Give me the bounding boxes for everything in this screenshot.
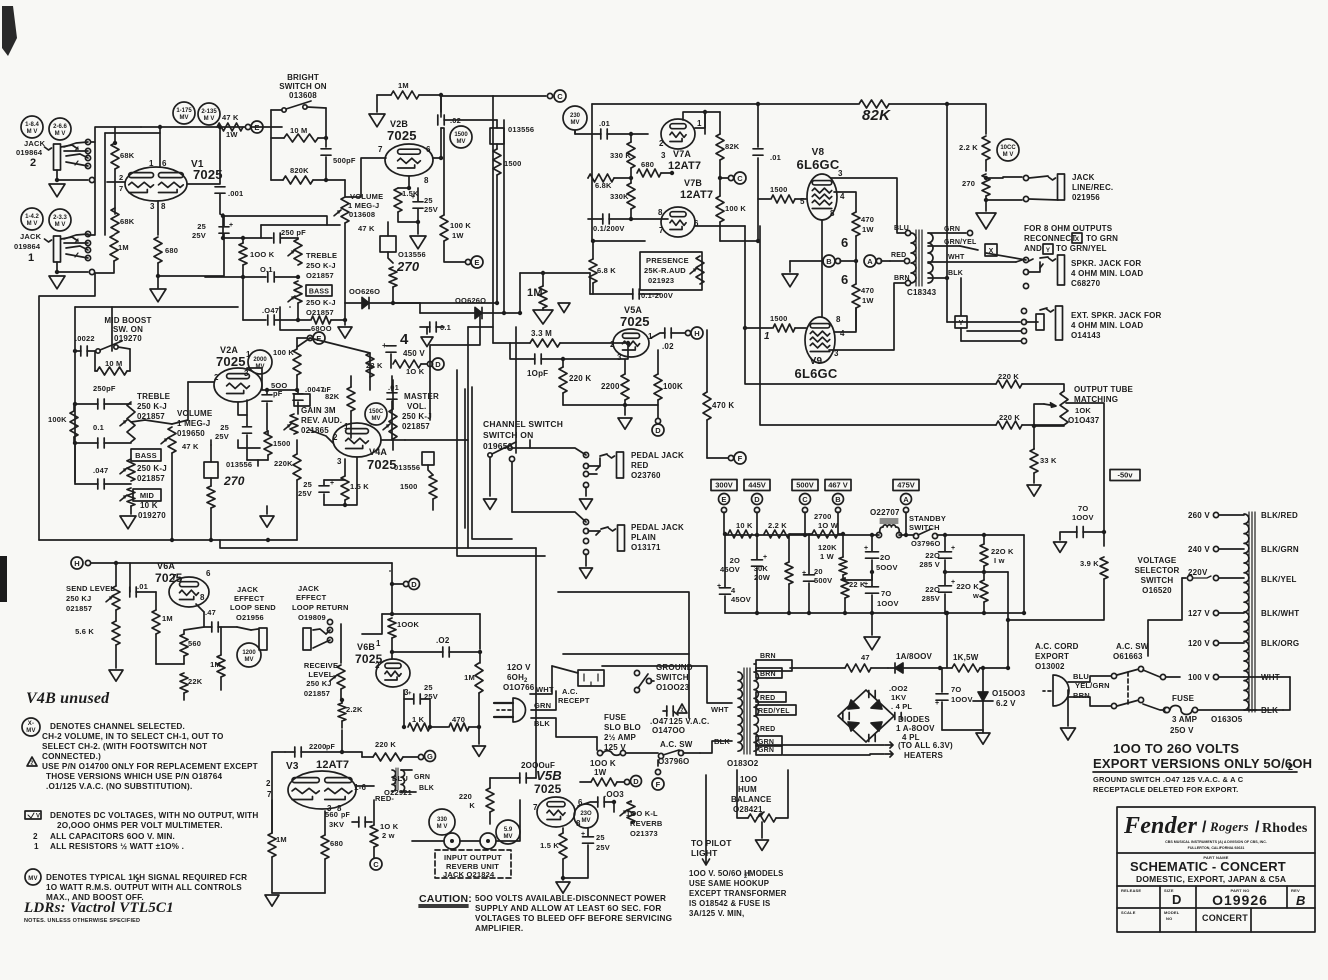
svg-text:TO PILOT: TO PILOT: [691, 838, 732, 848]
svg-text:1W: 1W: [452, 231, 464, 240]
svg-text:250 pF: 250 pF: [281, 228, 306, 237]
ground V1 cathode: [150, 289, 166, 302]
scan mark top-left corner: [2, 6, 17, 56]
resistor 82K pi: [716, 134, 724, 160]
bright switch frame: [270, 110, 272, 180]
svg-text:1OOV: 1OOV: [877, 599, 899, 608]
node 2-135 MV: [198, 103, 220, 125]
jack SPKR: [1058, 255, 1065, 285]
svg-text:2: 2: [119, 173, 123, 182]
resistor 470 1W V8: [852, 212, 860, 236]
svg-text:MID: MID: [140, 491, 155, 500]
capacitor 0.1/200V pi: [603, 214, 609, 224]
svg-text:25O K-J: 25O K-J: [306, 298, 336, 307]
svg-text:EXCEPT TRANSFORMER: EXCEPT TRANSFORMER: [689, 889, 787, 898]
capacitor 25/25V v6b: [403, 690, 405, 727]
svg-text:2200: 2200: [309, 742, 327, 751]
svg-text:1OO: 1OO: [740, 775, 758, 784]
capacitor 10pF: [535, 354, 541, 364]
svg-text:SWITCH ON: SWITCH ON: [483, 430, 533, 440]
transformer 018302 primary: [738, 672, 742, 751]
ground V2A cathode: [260, 516, 274, 527]
ground pedal plain: [580, 568, 593, 578]
plug mains: [513, 698, 526, 722]
wire 470 V8 down: [855, 236, 857, 261]
pot MID: [127, 488, 135, 506]
svg-text:BLK/ORG: BLK/ORG: [1261, 639, 1299, 648]
svg-text:FUSE: FUSE: [1172, 694, 1195, 703]
svg-text:USE SAME HOOKUP: USE SAME HOOKUP: [689, 879, 769, 888]
svg-text:.047: .047: [93, 466, 108, 475]
svg-text:E: E: [254, 123, 259, 132]
svg-text:1500: 1500: [770, 185, 788, 194]
svg-text:.O2: .O2: [436, 636, 450, 645]
ground send: [109, 670, 123, 681]
svg-text:013556: 013556: [226, 460, 252, 469]
svg-text:47 K: 47 K: [222, 113, 239, 122]
svg-text:1: 1: [376, 639, 381, 648]
svg-text:82K: 82K: [725, 142, 740, 151]
wire top bus right: [947, 104, 986, 134]
capacitor .01 pi out: [753, 149, 763, 155]
svg-text:BRIGHT: BRIGHT: [287, 73, 319, 82]
svg-text:1M: 1M: [464, 673, 475, 682]
svg-text:8: 8: [658, 208, 663, 217]
jack 019864 2: [54, 144, 61, 170]
wire net h: [589, 273, 591, 294]
resistor 22K ps: [841, 578, 849, 598]
svg-text:100 K: 100 K: [273, 348, 294, 357]
svg-text:82K: 82K: [862, 107, 891, 124]
resistor 1500 V2A: [264, 431, 272, 455]
bright switch: [282, 108, 286, 112]
capacitor .001: [215, 187, 225, 193]
svg-text:K: K: [469, 801, 475, 810]
svg-text:3: 3: [337, 457, 342, 466]
wire ldr4 up: [210, 445, 212, 462]
terminal F v5a: [707, 457, 728, 459]
node 2-3.3 MV: [49, 209, 71, 231]
wire net e2: [464, 389, 466, 528]
terminal E v2b: [465, 259, 470, 264]
zener 015003: [978, 692, 988, 701]
svg-text:CONCERT: CONCERT: [1202, 913, 1248, 923]
capacitor 70 100V mains: [936, 694, 948, 700]
transformer export coil: [1244, 514, 1249, 710]
svg-text:WHT: WHT: [948, 254, 965, 261]
wire grid to V1: [107, 181, 125, 183]
svg-text:VOLTAGES TO BLEED OFF BEFORE S: VOLTAGES TO BLEED OFF BEFORE SERVICING: [475, 914, 672, 923]
svg-text:E: E: [721, 495, 726, 504]
title divider 3: [1117, 907, 1315, 909]
node 2-6.6 MV: [49, 118, 71, 140]
hum balance pot: [748, 814, 776, 822]
svg-text:LINE/REC.: LINE/REC.: [1072, 183, 1113, 192]
svg-text:1500: 1500: [770, 314, 788, 323]
ground hum: [761, 822, 763, 838]
svg-text:DENOTES TYPICAL 1KH: DENOTES TYPICAL 1KH: [46, 873, 145, 882]
svg-text:O15OO3: O15OO3: [992, 689, 1026, 698]
svg-text:1-4.2: 1-4.2: [25, 214, 39, 220]
tube V6A 7025: [169, 577, 209, 607]
terminal E top: [245, 124, 250, 129]
ac sw export lower: [1117, 700, 1139, 706]
svg-text:Y: Y: [1046, 247, 1051, 254]
svg-text:220 K: 220 K: [569, 374, 591, 383]
svg-text:+: +: [864, 581, 868, 588]
svg-text:DENOTES CHANNEL SELECTED.: DENOTES CHANNEL SELECTED.: [50, 722, 185, 731]
mid boost switch: [96, 349, 100, 353]
svg-text:1W: 1W: [862, 225, 874, 234]
wire V2A plate: [247, 368, 297, 390]
svg-text:25V: 25V: [298, 489, 312, 498]
terminal H v5a: [691, 327, 703, 339]
ground 1M mid big: [533, 310, 553, 324]
svg-text:O147OO: O147OO: [652, 726, 685, 735]
resistor 3.3M: [530, 339, 560, 347]
svg-text:2: 2: [610, 340, 615, 349]
svg-text:SW. ON: SW. ON: [113, 325, 143, 334]
svg-text:1W: 1W: [226, 130, 238, 139]
svg-text:3 AMP: 3 AMP: [1172, 715, 1198, 724]
svg-text:V3: V3: [286, 761, 299, 772]
svg-text:260 V: 260 V: [1188, 511, 1210, 520]
wire v4a out: [381, 410, 392, 440]
ground ch sw: [484, 499, 497, 509]
svg-text:45OV: 45OV: [720, 565, 740, 574]
svg-text:2.2 K: 2.2 K: [768, 521, 787, 530]
svg-text:EFFECT: EFFECT: [296, 593, 327, 602]
wire 1M bottom: [95, 261, 114, 273]
svg-text:w: w: [972, 591, 979, 600]
resistor 82K top bus: [859, 100, 889, 108]
wire 1M v2b right: [419, 95, 441, 112]
svg-text:JACK O21824: JACK O21824: [443, 870, 495, 879]
svg-text:O19926: O19926: [1212, 892, 1268, 908]
svg-text:220 K: 220 K: [375, 740, 396, 749]
svg-text:25: 25: [424, 196, 433, 205]
capacitor 25/25V V2A: [243, 427, 252, 433]
svg-text:220 K: 220 K: [999, 413, 1020, 422]
resistor 1M v6b: [475, 663, 483, 693]
svg-text:O1O437: O1O437: [1068, 416, 1100, 425]
ground 1M v2b: [369, 114, 385, 127]
svg-text:20W: 20W: [754, 573, 771, 582]
wire net i: [574, 131, 576, 134]
svg-text:100 K: 100 K: [725, 204, 746, 213]
svg-text:1: 1: [149, 159, 154, 168]
wire pi to V8: [758, 198, 770, 200]
svg-text:+: +: [951, 579, 955, 586]
svg-text:.O1/125 V.A.C. (NO SUBSTITUTIO: .O1/125 V.A.C. (NO SUBSTITUTION).: [46, 782, 192, 791]
svg-text:EXT. SPKR. JACK FOR: EXT. SPKR. JACK FOR: [1071, 311, 1162, 320]
resistor 330K pi lower: [627, 183, 635, 209]
svg-text:BLK: BLK: [419, 785, 434, 792]
terminal E tone: [307, 335, 312, 340]
svg-text:NO: NO: [1166, 916, 1172, 921]
svg-text:CH-2 VOLUME, IN TO SELECT CH-1: CH-2 VOLUME, IN TO SELECT CH-1, OUT TO: [42, 732, 224, 741]
wire volume 019650: [131, 420, 172, 424]
resistor 100K ch2: [239, 243, 247, 265]
svg-text:X-: X-: [28, 721, 34, 727]
capacitor 25/25V v2b: [413, 202, 423, 208]
svg-text:1500: 1500: [504, 159, 522, 168]
svg-text:285 V: 285 V: [919, 560, 940, 569]
tube V3 12AT7: [288, 771, 356, 809]
ground export: [1067, 697, 1069, 726]
pot BASS ch2: [294, 281, 302, 303]
svg-text:1.5 K: 1.5 K: [540, 841, 559, 850]
capacitor .01 pi: [601, 129, 607, 139]
wire 2.2K to 270: [985, 160, 987, 171]
svg-text:6OH: 6OH: [507, 673, 524, 682]
svg-text:2: 2: [33, 832, 38, 841]
ground zener: [976, 733, 990, 744]
capacitor 250pF ch2: [274, 233, 280, 243]
wire 68K upper: [114, 127, 116, 143]
svg-text:VOLUME: VOLUME: [177, 409, 213, 418]
svg-text:M V: M V: [204, 116, 215, 122]
svg-text:O22707: O22707: [870, 508, 900, 517]
svg-text:019650: 019650: [177, 429, 205, 438]
loop return contacts: [327, 619, 332, 624]
scan mark left edge: [0, 556, 7, 602]
wire ch sw 2: [511, 462, 513, 512]
terminal D v5a: [655, 418, 660, 423]
node 1200 MV: [237, 643, 261, 667]
wire pedal red gnd: [585, 487, 587, 496]
svg-text:LIGHT: LIGHT: [691, 848, 718, 858]
jack SPKR contacts: [1023, 257, 1028, 262]
svg-text:SELECT CH-2. (WITH FOOTSWITCH: SELECT CH-2. (WITH FOOTSWITCH NOT: [42, 742, 207, 751]
svg-text:25V: 25V: [596, 843, 610, 852]
resistor 100K 1W v2b: [440, 215, 448, 241]
svg-text:1O K: 1O K: [380, 822, 399, 831]
svg-text:25: 25: [220, 423, 229, 432]
svg-text:V4B unused: V4B unused: [26, 690, 110, 707]
pot BASS: [127, 459, 135, 481]
svg-text:JACK: JACK: [20, 232, 42, 241]
svg-text:013608: 013608: [349, 210, 375, 219]
resistor 2.2K line: [982, 136, 990, 160]
capacitor 70 100V ps: [866, 587, 879, 593]
svg-text:1M: 1M: [210, 660, 221, 669]
svg-text:100 V: 100 V: [1188, 673, 1210, 682]
svg-text:.01: .01: [599, 119, 610, 128]
svg-text:8: 8: [424, 176, 429, 185]
resistor 1M loop b: [217, 655, 225, 677]
svg-text:O1OO23: O1OO23: [656, 683, 690, 692]
svg-text:2: 2: [214, 373, 219, 382]
transformer 018343 core: [916, 230, 922, 286]
wire line jack bot: [986, 199, 1022, 201]
ground jack 2: [49, 184, 65, 197]
svg-text:MV: MV: [571, 120, 580, 126]
svg-text:7025: 7025: [367, 457, 397, 472]
svg-text:2O: 2O: [880, 553, 890, 562]
wire tone top: [75, 306, 238, 308]
ground 0.1 master: [421, 337, 433, 347]
svg-text:7025: 7025: [387, 128, 417, 143]
svg-text:AMPLIFIER.: AMPLIFIER.: [475, 924, 523, 933]
terminal D ps: [752, 494, 763, 505]
svg-text:RED: RED: [631, 461, 649, 470]
resistor 10M boost: [97, 367, 127, 375]
wire long vertical pair a: [492, 96, 494, 343]
terminal C v3: [370, 858, 382, 870]
svg-text:SWITCH: SWITCH: [656, 673, 689, 682]
svg-text:+: +: [717, 583, 721, 590]
wire jack2 to grid bus: [91, 127, 141, 142]
svg-text:5: 5: [800, 197, 805, 206]
resistor 100K v6b: [391, 563, 393, 614]
svg-text:330 K: 330 K: [610, 151, 631, 160]
svg-text:TO GRN: TO GRN: [1086, 234, 1118, 243]
svg-text:1KV: 1KV: [891, 693, 906, 702]
capacitor .047 ch2: [268, 315, 274, 325]
box BASS ch2: [306, 285, 332, 296]
svg-text:HUM: HUM: [738, 785, 757, 794]
svg-text:1OO K: 1OO K: [250, 250, 275, 259]
capacitor .02 v5a: [665, 328, 671, 338]
svg-text:4: 4: [400, 331, 409, 348]
wire v5a cathode bus: [563, 404, 658, 406]
svg-text:7O: 7O: [881, 589, 891, 598]
box hum: [737, 770, 748, 818]
svg-text:25V: 25V: [192, 231, 206, 240]
wire mid gnd: [130, 506, 132, 514]
wire V9 plate: [829, 283, 911, 350]
box reverb unit: [435, 850, 511, 878]
svg-text:25O V: 25O V: [1170, 726, 1194, 735]
svg-text:2: 2: [31, 761, 34, 767]
resistor 100K v5a: [654, 374, 662, 400]
wire input vertical: [88, 142, 95, 235]
svg-text:470: 470: [861, 215, 874, 224]
wire 25 down: [158, 234, 224, 276]
svg-text:250 K-J: 250 K-J: [137, 464, 167, 473]
svg-text:+: +: [581, 831, 585, 838]
svg-text:120 V: 120 V: [1188, 639, 1210, 648]
wire ps bus main: [724, 534, 879, 536]
resistor 1.5K v2b: [394, 188, 402, 212]
svg-text:Fender: Fender: [1123, 813, 1198, 839]
svg-text:12O V: 12O V: [507, 663, 531, 672]
wire ps right down: [1023, 535, 1025, 613]
ground v6b cathode: [478, 727, 480, 744]
svg-text:1.5 K: 1.5 K: [350, 482, 369, 491]
tube V7B 12AT7: [661, 207, 695, 237]
wire 2000 to v5b: [490, 777, 520, 779]
tube V5A 7025: [613, 329, 649, 357]
svg-text:021956: 021956: [1072, 193, 1100, 202]
svg-text:1: 1: [697, 119, 702, 128]
svg-text:20: 20: [814, 567, 823, 576]
capacitor 25/25V V4A: [319, 486, 329, 492]
svg-text:RED/YEL: RED/YEL: [758, 708, 790, 715]
svg-text:O21857: O21857: [306, 271, 334, 280]
svg-text:USE P/N O14700 ONLY FOR REPLAC: USE P/N O14700 ONLY FOR REPLACEMENT EXCE…: [42, 762, 258, 771]
svg-text:M V: M V: [27, 129, 38, 135]
tube V2A 7025: [214, 368, 262, 402]
wire pedal plain down: [585, 554, 587, 566]
svg-text:1: 1: [764, 331, 770, 342]
svg-text:A.C. CORD: A.C. CORD: [1035, 642, 1079, 651]
svg-text:B: B: [1296, 893, 1306, 908]
svg-text:X: X: [1075, 236, 1080, 243]
svg-text:22O K: 22O K: [956, 582, 979, 591]
wire V2B plate: [433, 128, 441, 158]
svg-text:220K: 220K: [274, 459, 293, 468]
svg-text:2: 2: [681, 708, 684, 714]
svg-text:DIODES: DIODES: [898, 715, 930, 724]
boxed 467V: [825, 480, 851, 491]
svg-text:V7A: V7A: [673, 149, 691, 159]
ground small mid: [558, 303, 570, 313]
svg-text:021923: 021923: [648, 276, 674, 285]
svg-text:CAUTION:: CAUTION:: [419, 893, 472, 905]
svg-text:013608: 013608: [289, 91, 317, 100]
svg-text:0.1: 0.1: [93, 423, 104, 432]
wire bright to volume: [344, 180, 346, 196]
svg-text:25: 25: [424, 683, 433, 692]
svg-text:25: 25: [303, 480, 312, 489]
svg-text:25O K-J: 25O K-J: [306, 261, 336, 270]
wire GRN/YEL tap: [928, 245, 960, 247]
svg-text:021865: 021865: [301, 426, 329, 435]
svg-text:BRN: BRN: [760, 653, 776, 660]
svg-text:D: D: [655, 426, 661, 435]
svg-text:SWITCH: SWITCH: [909, 523, 940, 532]
wire selector feed: [1148, 578, 1182, 656]
jack 1 contacts: [61, 237, 78, 241]
jack EXT SPKR: [1056, 306, 1063, 340]
wire long vertical pair b: [503, 120, 505, 313]
svg-text:JACK: JACK: [298, 584, 320, 593]
box 013556 ldr 5: [422, 452, 434, 465]
svg-text:1OO K: 1OO K: [590, 759, 616, 768]
svg-text:BRN: BRN: [760, 671, 776, 678]
svg-text:A.C.: A.C.: [562, 687, 578, 696]
jack pedal plain: [618, 525, 625, 551]
box MID: [133, 489, 161, 501]
svg-text:V: V: [36, 814, 40, 820]
svg-text:680: 680: [330, 839, 343, 848]
svg-text:3: 3: [244, 369, 249, 378]
capacitor .0047 V2A: [293, 394, 303, 400]
svg-text:6: 6: [841, 235, 848, 250]
wire ch2 0.1 row: [205, 276, 266, 278]
svg-text:DOMESTIC, EXPORT, JAPAN & C5A: DOMESTIC, EXPORT, JAPAN & C5A: [1136, 874, 1286, 884]
svg-text:MV: MV: [28, 876, 37, 882]
jack 019864 1: [54, 236, 61, 262]
svg-text:O163O5: O163O5: [1211, 715, 1243, 724]
node 1500 MV v4a: [365, 403, 387, 425]
wire V4A cathode: [324, 457, 357, 505]
wire .001 down: [220, 194, 224, 226]
capacitor 20 500V b: [866, 552, 879, 558]
svg-text:6: 6: [426, 145, 431, 154]
terminal E ps: [719, 494, 730, 505]
reverb jacks: [444, 833, 460, 849]
svg-text:SWITCH ON: SWITCH ON: [279, 82, 327, 91]
svg-text:2: 2: [30, 157, 36, 169]
svg-text:6: 6: [206, 569, 211, 578]
svg-text:OUTPUT TUBE: OUTPUT TUBE: [1074, 385, 1134, 394]
wire v2b ldr: [387, 222, 389, 236]
resistor 1M loop a: [152, 610, 160, 634]
box presence: [640, 252, 702, 290]
